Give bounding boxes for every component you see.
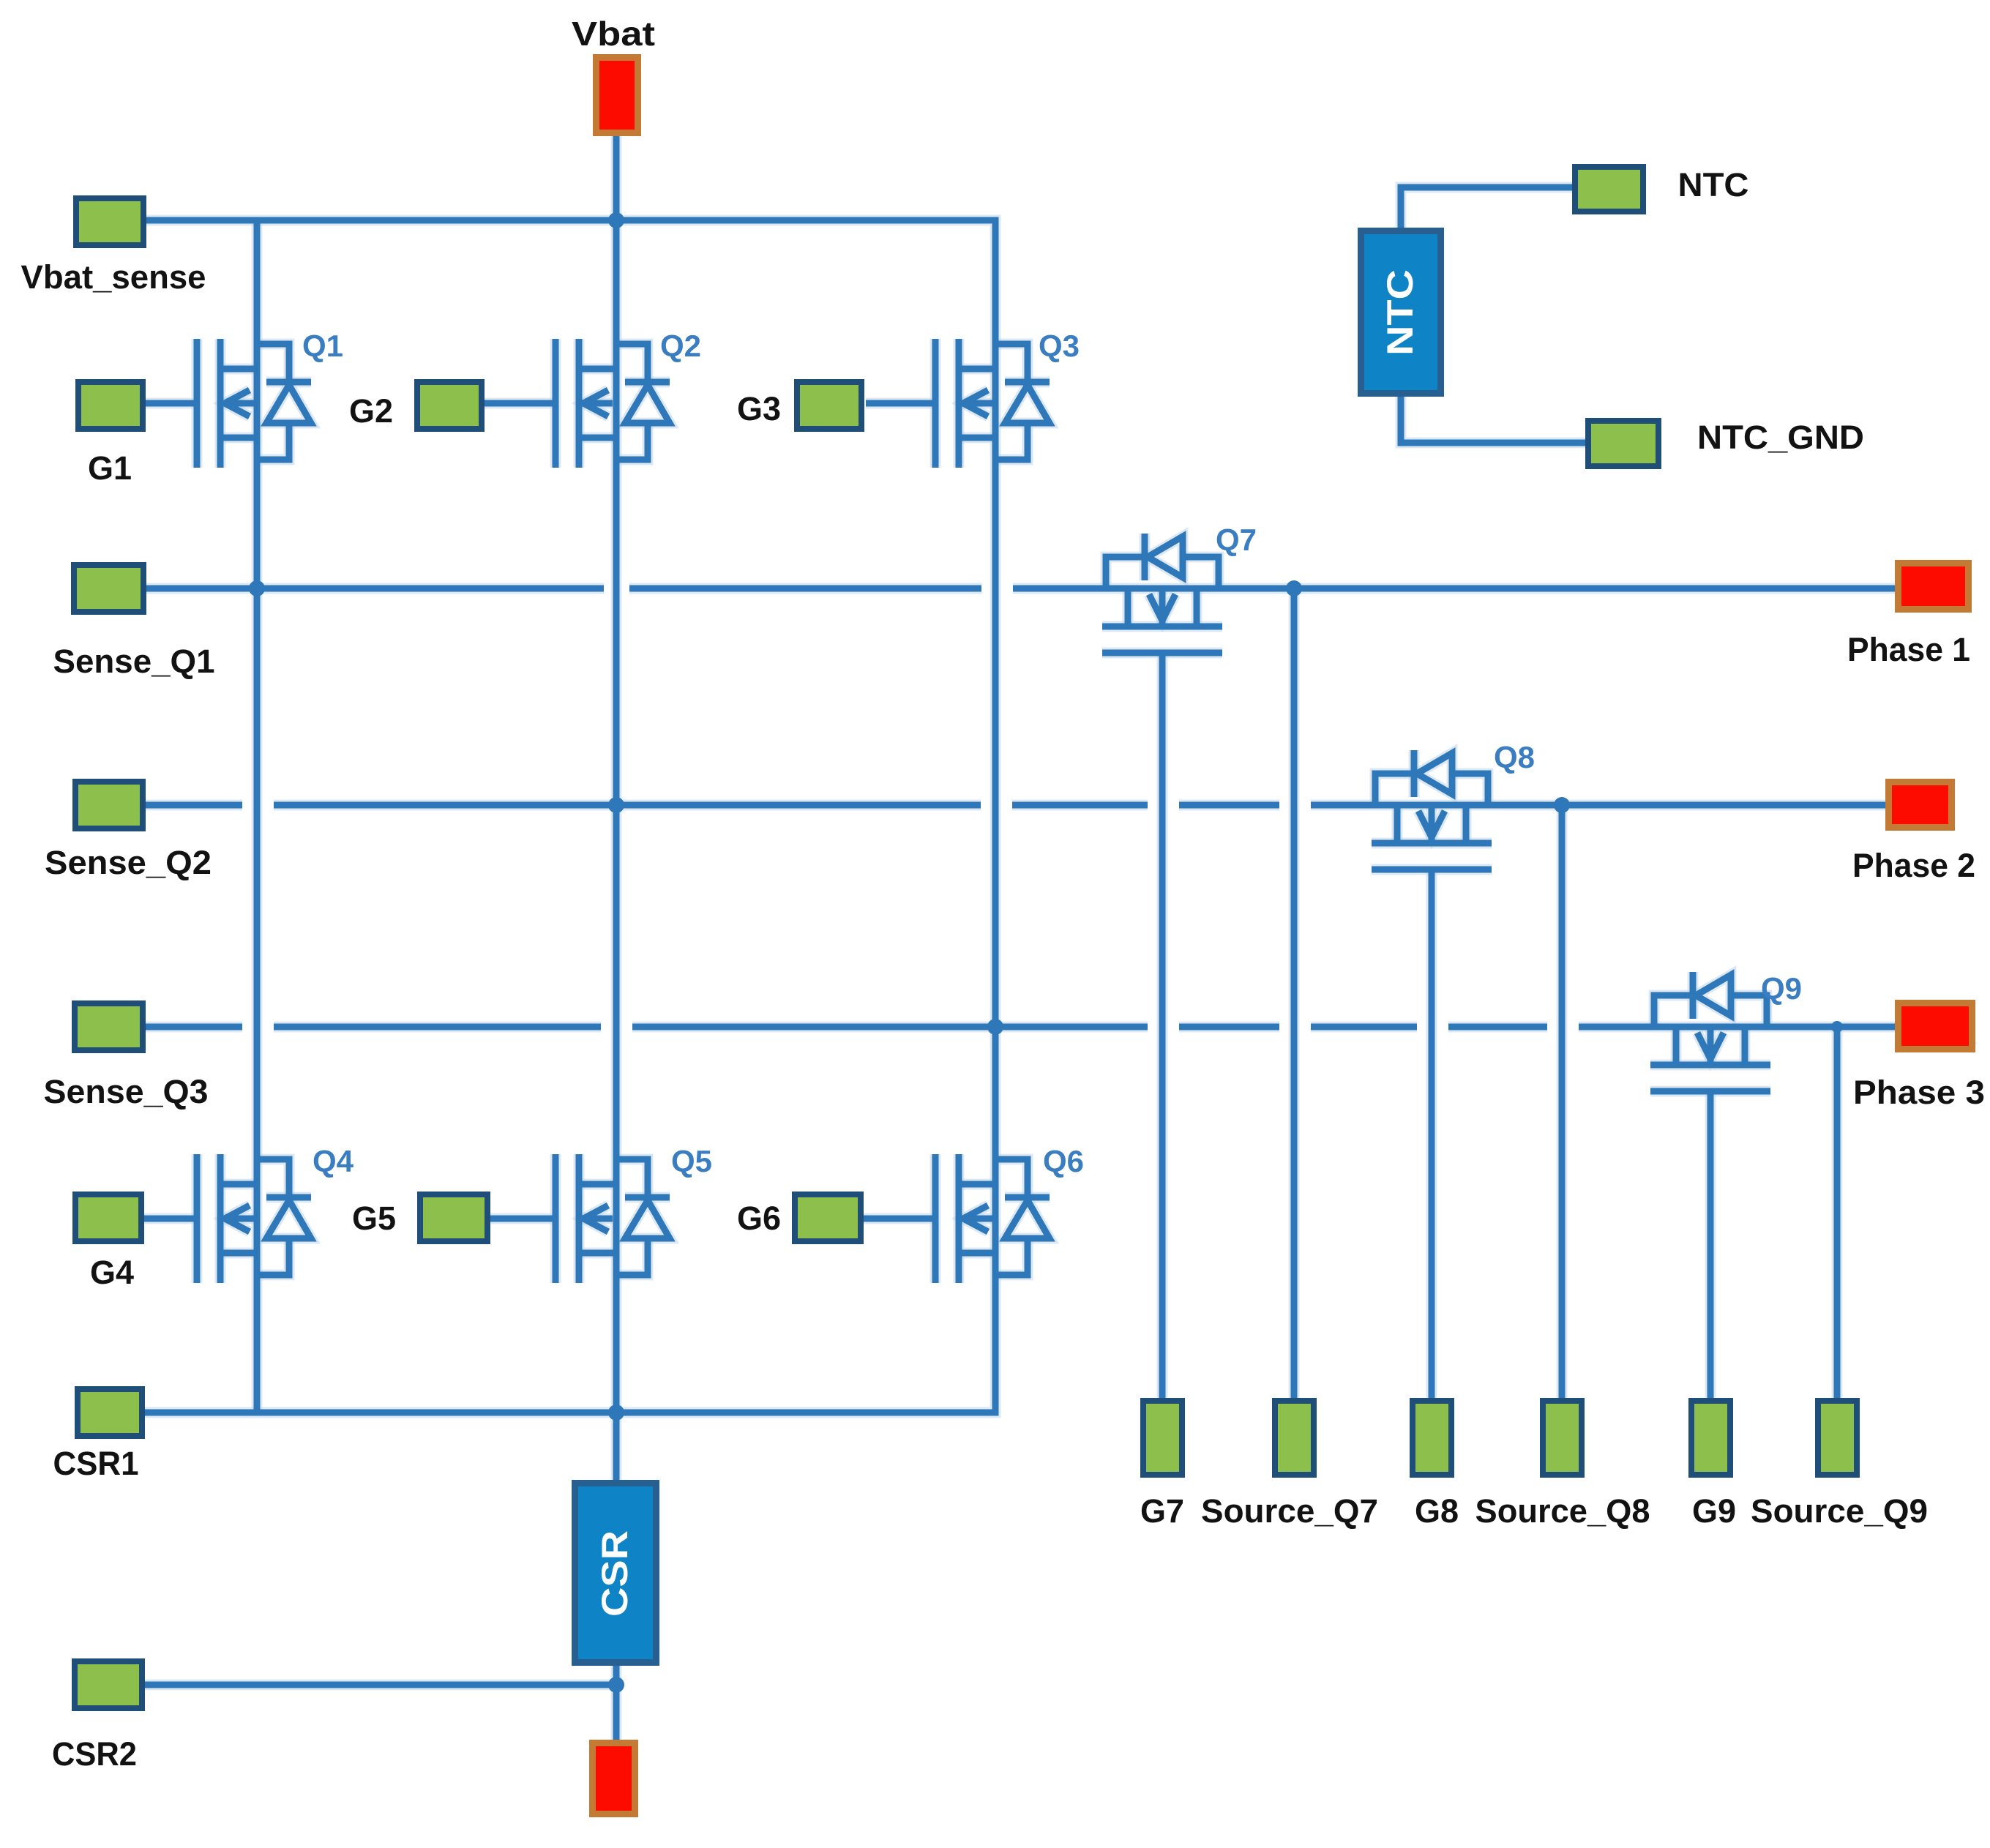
svg-text:Q7: Q7: [1216, 523, 1257, 557]
svg-text:G2: G2: [349, 392, 393, 430]
svg-text:Source_Q8: Source_Q8: [1475, 1492, 1650, 1530]
svg-text:Q4: Q4: [313, 1144, 354, 1178]
svg-text:G9: G9: [1692, 1492, 1736, 1530]
svg-text:Q8: Q8: [1494, 740, 1535, 774]
svg-text:Q5: Q5: [671, 1144, 712, 1178]
svg-text:G7: G7: [1140, 1492, 1184, 1530]
svg-text:CSR: CSR: [594, 1530, 635, 1617]
svg-text:Source_Q7: Source_Q7: [1201, 1492, 1378, 1530]
svg-text:Sense_Q1: Sense_Q1: [53, 643, 215, 680]
svg-text:Q9: Q9: [1761, 971, 1802, 1006]
svg-text:Vbat_sense: Vbat_sense: [21, 258, 206, 296]
svg-text:NTC: NTC: [1380, 269, 1421, 356]
svg-text:Q3: Q3: [1039, 329, 1080, 363]
svg-text:Source_Q9: Source_Q9: [1751, 1492, 1928, 1530]
svg-text:Q6: Q6: [1043, 1144, 1084, 1178]
svg-text:Sense_Q2: Sense_Q2: [45, 844, 212, 881]
svg-text:G1: G1: [88, 449, 132, 487]
svg-text:G3: G3: [737, 390, 781, 427]
svg-text:Phase 2: Phase 2: [1852, 847, 1975, 884]
svg-text:G8: G8: [1415, 1492, 1459, 1530]
svg-text:Q1: Q1: [302, 329, 343, 363]
svg-text:Q2: Q2: [660, 329, 701, 363]
svg-text:Vbat: Vbat: [572, 15, 655, 53]
svg-text:G5: G5: [352, 1200, 396, 1237]
svg-text:CSR1: CSR1: [53, 1445, 139, 1482]
svg-text:Sense_Q3: Sense_Q3: [44, 1073, 209, 1110]
svg-text:G6: G6: [737, 1200, 781, 1237]
svg-text:NTC: NTC: [1678, 166, 1749, 203]
svg-text:Phase 1: Phase 1: [1847, 631, 1970, 668]
svg-text:Phase 3: Phase 3: [1853, 1074, 1985, 1111]
svg-text:NTC_GND: NTC_GND: [1697, 419, 1864, 456]
svg-text:CSR2: CSR2: [52, 1735, 137, 1773]
svg-text:G4: G4: [90, 1254, 134, 1291]
